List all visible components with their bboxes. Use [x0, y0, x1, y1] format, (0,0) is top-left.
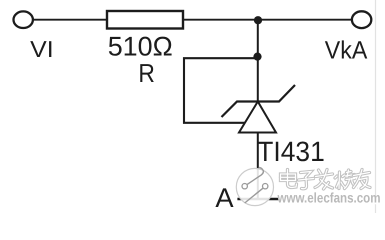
svg-text:A: A: [215, 183, 233, 213]
svg-text:TI431: TI431: [257, 136, 325, 167]
watermark chinese text shao: [335, 170, 359, 190]
wire resistor to VkA terminal: [183, 19, 352, 21]
svg-text:VkA: VkA: [325, 36, 368, 64]
regulator U1 TL431 triangle: [239, 102, 276, 133]
watermark chinese text dian: [281, 170, 298, 189]
svg-text:R: R: [138, 58, 155, 88]
terminal VI circle: [14, 11, 33, 28]
wire anode lead: [257, 133, 259, 200]
wire cathode vertical: [257, 20, 259, 101]
svg-text:510Ω: 510Ω: [108, 31, 173, 61]
node junction dot ref: [253, 53, 261, 61]
watermark chinese text fa: [315, 170, 334, 191]
watermark url www.elecfans.com: [277, 190, 382, 207]
resistor R1 body: [107, 11, 183, 29]
watermark chinese text zi: [299, 172, 315, 190]
svg-text:VI: VI: [30, 36, 54, 62]
regulator U1 TL431 cathode bar: [222, 85, 296, 117]
wire anode terminal A: [237, 198, 278, 200]
svg-text:www.elecfans.com: www.elecfans.com: [277, 190, 381, 206]
wire reference feedback loop: [184, 58, 258, 123]
watermark chinese text you: [354, 170, 372, 190]
wire input to resistor: [33, 19, 107, 21]
watermark logo circle: [236, 167, 273, 205]
scan artifact vertical line: [375, 0, 377, 213]
terminal VkA circle: [352, 11, 371, 28]
node junction dot top: [254, 16, 262, 24]
